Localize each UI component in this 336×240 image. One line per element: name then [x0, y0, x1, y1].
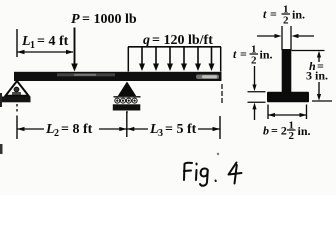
svg-text:= 2: = 2 — [271, 124, 287, 138]
svg-text:b: b — [263, 124, 269, 138]
svg-text:=: = — [240, 47, 247, 61]
svg-text:2: 2 — [289, 130, 295, 142]
svg-text:= 120 lb/ft: = 120 lb/ft — [152, 33, 213, 48]
svg-text:q: q — [143, 33, 150, 48]
svg-text:t: t — [233, 47, 237, 61]
svg-text:2: 2 — [251, 55, 257, 67]
svg-text:P: P — [71, 12, 80, 27]
svg-text:in.: in. — [298, 124, 311, 138]
svg-text:=: = — [270, 7, 277, 21]
svg-text:t: t — [263, 7, 267, 21]
svg-text:3: 3 — [158, 128, 163, 139]
svg-text:= 1000 lb: = 1000 lb — [82, 12, 137, 27]
svg-text:in.: in. — [260, 48, 273, 62]
svg-text:in.: in. — [292, 8, 305, 22]
svg-text:3 in.: 3 in. — [306, 69, 328, 83]
svg-text:= 8 ft: = 8 ft — [61, 122, 93, 137]
svg-text:2: 2 — [54, 128, 59, 139]
svg-text:2: 2 — [283, 15, 289, 27]
svg-text:= 5 ft: = 5 ft — [165, 122, 197, 137]
svg-text:1: 1 — [30, 40, 35, 51]
svg-text:= 4 ft: = 4 ft — [37, 34, 69, 49]
